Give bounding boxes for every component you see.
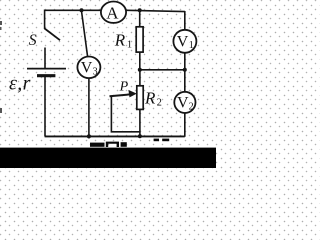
- svg-text:1: 1: [127, 40, 132, 51]
- wire rheostat wiper loop: [111, 96, 139, 132]
- battery long plate: [27, 68, 66, 70]
- wire V1 to V2 vertical: [184, 52, 186, 92]
- wire V3 bottom lead: [88, 78, 90, 136]
- rheostat wiper arrow shaft: [110, 94, 131, 96]
- junction node bottom V3: [87, 134, 91, 138]
- wire bottom horizontal: [45, 135, 185, 137]
- svg-text:R: R: [114, 31, 126, 50]
- svg-text:V: V: [177, 94, 189, 111]
- svg-text:P: P: [119, 79, 129, 94]
- wire right vertical upper: [184, 11, 186, 30]
- svg-text:2: 2: [157, 97, 162, 108]
- junction node middle left: [138, 68, 142, 72]
- wire top-right horizontal: [126, 10, 185, 11]
- rheostat R2 box: [137, 86, 143, 110]
- voltmeter V2 circle: [174, 92, 195, 113]
- wire R2 bottom lead: [139, 109, 141, 136]
- svg-text:ε,r: ε,r: [9, 72, 31, 94]
- battery short plate: [37, 74, 55, 77]
- svg-text:S: S: [29, 32, 37, 49]
- wire R1 top lead: [139, 10, 141, 27]
- wire battery top lead: [44, 48, 46, 69]
- wire R1 bottom lead: [139, 52, 141, 70]
- ammeter A circle: [101, 2, 126, 23]
- wire middle horizontal: [140, 69, 185, 71]
- scan noise left edge: [0, 21, 2, 113]
- voltmeter V1 circle: [173, 30, 196, 53]
- cropped caption glyph fragments above black band: [90, 139, 169, 147]
- voltmeter V3 circle: [77, 57, 100, 79]
- svg-text:2: 2: [189, 101, 194, 112]
- wire R2 top lead: [139, 70, 141, 86]
- wire V2 bottom lead: [184, 113, 186, 137]
- svg-text:1: 1: [189, 40, 194, 51]
- junction node middle right: [183, 68, 187, 72]
- wire left vertical (switch top lead): [44, 10, 46, 30]
- junction node bottom R2: [138, 134, 142, 138]
- svg-text:V: V: [177, 33, 189, 50]
- wire battery bottom lead: [44, 76, 46, 137]
- svg-text:V: V: [81, 60, 93, 77]
- svg-text:3: 3: [93, 67, 98, 78]
- switch S blade: [45, 29, 60, 41]
- svg-text:A: A: [106, 4, 119, 23]
- black band bottom: [0, 148, 216, 168]
- rheostat wiper arrowhead: [128, 90, 136, 98]
- junction node top V3: [80, 8, 84, 12]
- junction node top R1: [138, 8, 142, 12]
- wire V3 top slanted lead: [81, 10, 87, 56]
- resistor R1 box: [136, 27, 143, 52]
- wire top-left horizontal: [45, 9, 101, 11]
- svg-text:R: R: [144, 88, 156, 107]
